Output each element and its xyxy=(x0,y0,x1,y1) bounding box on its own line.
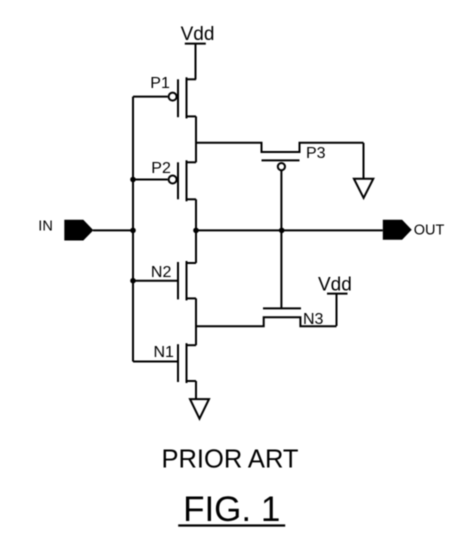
wire output row from trunk to OUT xyxy=(196,229,383,231)
transistor P3 (horizontal PMOS) xyxy=(196,143,364,170)
svg-text:N3: N3 xyxy=(303,311,324,328)
node dot bus/N2 gate xyxy=(130,278,136,284)
svg-text:N1: N1 xyxy=(154,344,175,361)
power Vdd right symbol xyxy=(327,294,348,326)
wire P3/N3 gate feedback from output node xyxy=(280,171,282,309)
wire trunk segment N1 source to ground xyxy=(195,381,197,400)
wire input from IN arrow to bus xyxy=(93,229,133,231)
node dot output/feedback gates xyxy=(279,228,285,234)
svg-text:P3: P3 xyxy=(306,145,326,162)
node dot bus/IN xyxy=(130,228,136,234)
wire P3 source to ground drop xyxy=(363,143,365,179)
svg-text:Vdd: Vdd xyxy=(181,24,215,45)
svg-text:FIG. 1: FIG. 1 xyxy=(183,490,280,529)
wire input gate bus (left vertical) xyxy=(132,97,134,362)
wire trunk segment N2 source to N1 drain (with N3 tap junction) xyxy=(195,298,197,345)
svg-text:Vdd: Vdd xyxy=(318,274,352,295)
svg-text:OUT: OUT xyxy=(414,222,445,238)
output terminal arrow OUT xyxy=(383,220,412,240)
transistor P2 xyxy=(133,160,196,201)
caption underline xyxy=(178,524,285,526)
svg-text:IN: IN xyxy=(38,218,53,234)
wire trunk segment P1 drain to P2 source (with P3 tap junction) xyxy=(195,116,197,162)
node dot output/trunk xyxy=(193,228,199,234)
wire trunk segment P2 drain to N2 drain through output node xyxy=(195,199,197,263)
ground symbol below N1 xyxy=(190,399,209,419)
svg-text:P1: P1 xyxy=(150,75,170,92)
ground symbol at P3 source xyxy=(354,179,373,198)
node dot bus/P2 gate xyxy=(130,177,136,183)
svg-text:N2: N2 xyxy=(151,264,172,281)
svg-text:P2: P2 xyxy=(151,160,171,177)
transistor N3 (horizontal NMOS) xyxy=(196,308,337,326)
transistor N1 xyxy=(133,343,196,383)
svg-text:PRIOR ART: PRIOR ART xyxy=(162,446,299,474)
input terminal arrow IN xyxy=(64,220,93,241)
transistor N2 xyxy=(133,261,196,300)
power Vdd top symbol xyxy=(185,44,206,80)
transistor P1 xyxy=(133,77,196,118)
